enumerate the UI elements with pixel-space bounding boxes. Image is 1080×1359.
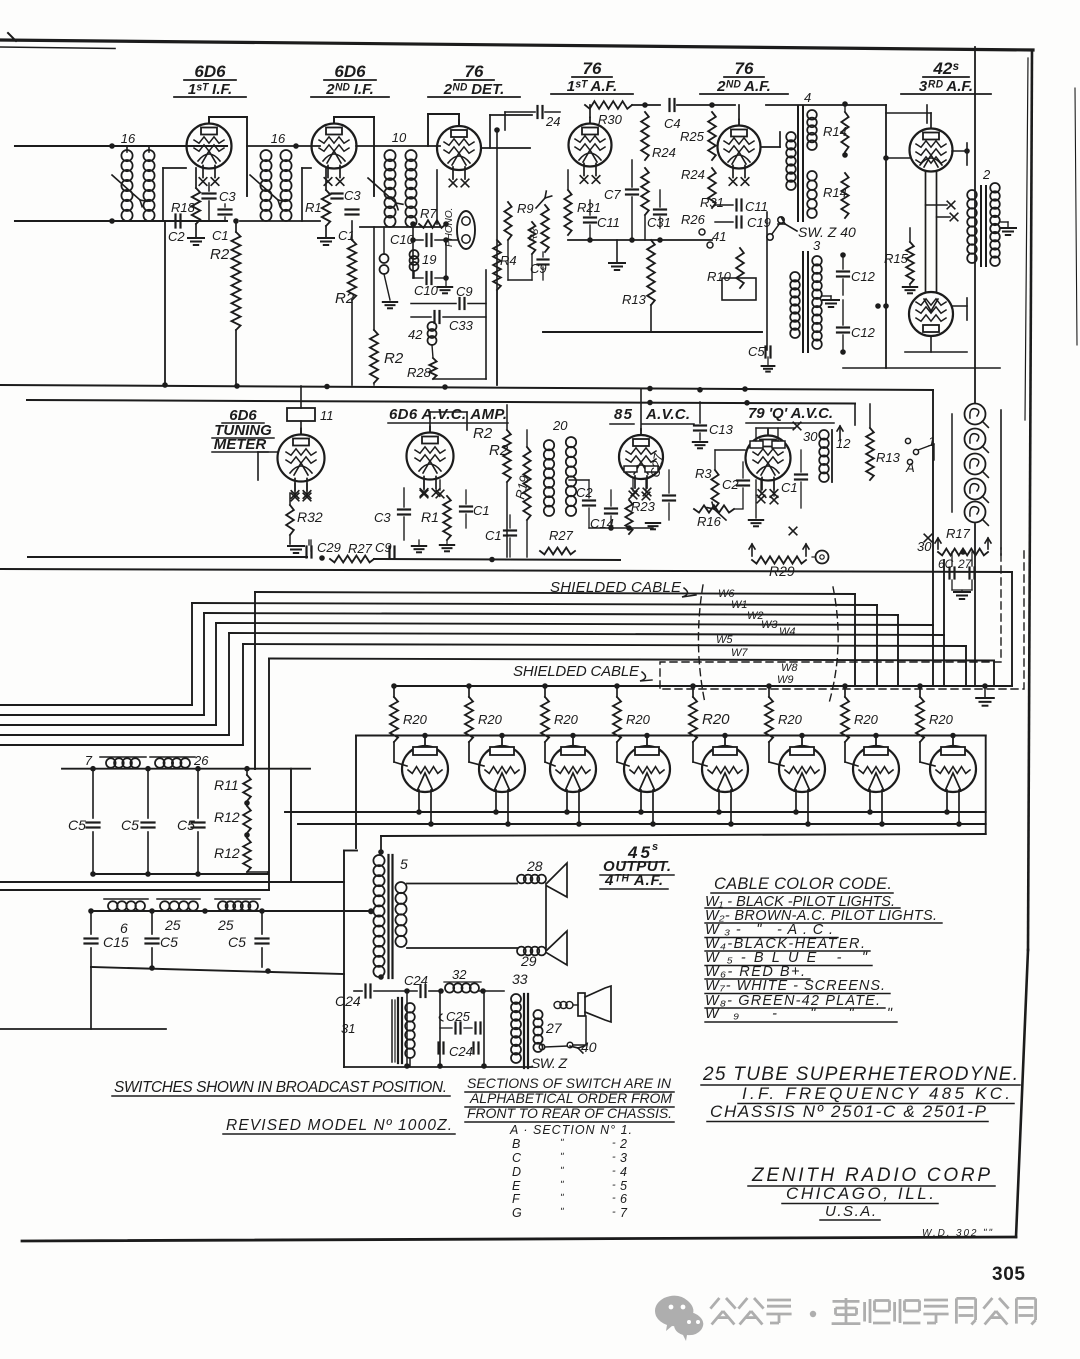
- svg-text:4: 4: [804, 90, 811, 105]
- svg-text:R12: R12: [214, 809, 240, 825]
- svg-text:R31: R31: [700, 195, 724, 210]
- svg-text:R30: R30: [598, 112, 623, 127]
- svg-text:C13: C13: [709, 422, 734, 437]
- svg-text:R11: R11: [214, 777, 239, 793]
- svg-text:16: 16: [271, 131, 286, 146]
- svg-text:C4: C4: [664, 116, 681, 131]
- svg-text:R23: R23: [631, 499, 656, 514]
- svg-text:R3: R3: [695, 466, 712, 481]
- svg-text:R9: R9: [517, 201, 534, 216]
- svg-text:29: 29: [520, 953, 537, 969]
- svg-text:C3: C3: [374, 510, 391, 525]
- svg-text:-: -: [612, 1206, 616, 1218]
- svg-text:R28: R28: [407, 365, 432, 380]
- svg-text:2: 2: [982, 167, 991, 182]
- svg-text:W₇- WHITE - SCREENS.: W₇- WHITE - SCREENS.: [705, 978, 885, 994]
- svg-text:R7: R7: [420, 206, 437, 221]
- svg-text:C7: C7: [604, 187, 621, 202]
- svg-text:G: G: [512, 1206, 522, 1220]
- svg-text:R27: R27: [348, 541, 373, 556]
- svg-text:C5: C5: [160, 934, 178, 950]
- svg-text:W4: W4: [779, 626, 796, 638]
- svg-text:4: 4: [620, 1165, 627, 1179]
- svg-text:C12: C12: [851, 269, 876, 284]
- svg-text:C33: C33: [449, 318, 474, 333]
- svg-text:5: 5: [400, 856, 408, 872]
- svg-text:D: D: [512, 1165, 521, 1179]
- svg-text:R13: R13: [876, 450, 901, 465]
- svg-text:30: 30: [803, 429, 818, 444]
- svg-text:R20: R20: [403, 712, 428, 727]
- svg-text:R2: R2: [384, 350, 404, 367]
- svg-text:6C: 6C: [938, 557, 954, 571]
- svg-text:3: 3: [813, 238, 821, 253]
- svg-text:ʺ: ʺ: [560, 1152, 564, 1163]
- svg-text:20: 20: [552, 418, 568, 433]
- svg-text:ʺ: ʺ: [560, 1166, 564, 1177]
- svg-text:12: 12: [836, 436, 851, 451]
- svg-text:CABLE COLOR CODE.: CABLE COLOR CODE.: [714, 875, 892, 893]
- svg-text:W5: W5: [716, 634, 733, 646]
- svg-text:7: 7: [85, 753, 93, 768]
- svg-text:SWITCHES SHOWN IN BROADCAST PO: SWITCHES SHOWN IN BROADCAST POSITION.: [114, 1079, 447, 1096]
- svg-text:ʺ: ʺ: [560, 1207, 564, 1218]
- svg-text:C10: C10: [414, 283, 439, 298]
- svg-text:3: 3: [620, 1151, 627, 1165]
- svg-text:s: s: [652, 841, 658, 853]
- svg-text:C12: C12: [851, 325, 876, 340]
- svg-text:R20: R20: [554, 712, 579, 727]
- svg-text:R10: R10: [707, 269, 732, 284]
- svg-text:R8: R8: [527, 227, 541, 244]
- svg-text:ʺ: ʺ: [560, 1138, 564, 1149]
- svg-text:SECTIONS OF SWITCH ARE IN: SECTIONS OF SWITCH ARE IN: [467, 1075, 672, 1091]
- svg-text:R27: R27: [549, 528, 574, 543]
- svg-text:79 'Q' A.V.C.: 79 'Q' A.V.C.: [748, 405, 833, 422]
- svg-text:R20: R20: [478, 712, 503, 727]
- svg-text:A.V.C.: A.V.C.: [645, 406, 690, 423]
- svg-text:2ᴺᴰ I.F.: 2ᴺᴰ I.F.: [325, 81, 374, 98]
- svg-text:C5: C5: [748, 344, 765, 359]
- svg-text:2ᴺᴰ DET.: 2ᴺᴰ DET.: [443, 81, 505, 98]
- svg-text:24: 24: [545, 114, 560, 129]
- svg-text:U.S.A.: U.S.A.: [825, 1203, 876, 1220]
- svg-text:R24: R24: [681, 167, 705, 182]
- svg-text:A · SECTION N° 1.: A · SECTION N° 1.: [509, 1123, 632, 1137]
- svg-text:ALPHABETICAL ORDER FROM: ALPHABETICAL ORDER FROM: [469, 1090, 672, 1106]
- svg-text:R24: R24: [652, 145, 676, 160]
- svg-text:-: -: [612, 1179, 616, 1191]
- svg-text:C24: C24: [404, 973, 428, 988]
- svg-text:C3: C3: [219, 189, 236, 204]
- svg-text:26: 26: [193, 753, 209, 768]
- svg-text:R18: R18: [171, 200, 196, 215]
- svg-text:SHIELDED CABLE: SHIELDED CABLE: [513, 663, 640, 680]
- svg-text:B: B: [512, 1137, 520, 1151]
- svg-text:C31: C31: [647, 215, 671, 230]
- svg-text:6D6 A.V.C. AMP.: 6D6 A.V.C. AMP.: [389, 406, 507, 423]
- svg-text:R20: R20: [702, 711, 730, 728]
- svg-text:-: -: [612, 1137, 616, 1149]
- svg-text:-: -: [612, 1165, 616, 1177]
- svg-text:6D6: 6D6: [334, 62, 366, 81]
- svg-text:C25: C25: [446, 1009, 471, 1024]
- svg-text:C1: C1: [212, 228, 229, 243]
- svg-text:C9: C9: [530, 261, 547, 276]
- svg-text:2: 2: [619, 1137, 627, 1151]
- svg-text:C24: C24: [335, 993, 361, 1009]
- svg-text:5: 5: [620, 1179, 627, 1193]
- svg-text:6: 6: [620, 1192, 627, 1206]
- svg-text:FRONT TO REAR OF CHASSIS.: FRONT TO REAR OF CHASSIS.: [467, 1105, 672, 1121]
- svg-text:W1: W1: [731, 599, 748, 611]
- svg-text:25: 25: [164, 917, 181, 933]
- svg-text:SHIELDED CABLE: SHIELDED CABLE: [550, 579, 682, 596]
- svg-text:R20: R20: [778, 712, 803, 727]
- svg-text:C11: C11: [597, 215, 620, 230]
- svg-text:19: 19: [422, 252, 436, 267]
- svg-text:31: 31: [341, 1021, 355, 1036]
- svg-text:27: 27: [957, 557, 973, 571]
- svg-text:C3: C3: [344, 188, 361, 203]
- svg-text:25: 25: [217, 917, 234, 933]
- svg-text:SW. Z: SW. Z: [531, 1055, 567, 1071]
- svg-text:C5: C5: [121, 817, 139, 833]
- svg-text:42: 42: [408, 327, 423, 342]
- svg-text:C2: C2: [168, 229, 185, 244]
- svg-text:32: 32: [452, 967, 467, 982]
- svg-text:C2: C2: [576, 485, 593, 500]
- svg-text:ʺ: ʺ: [560, 1193, 564, 1204]
- svg-text:R2: R2: [473, 425, 493, 442]
- svg-text:W7: W7: [731, 647, 748, 659]
- svg-text:30: 30: [917, 539, 932, 554]
- svg-text:W9: W9: [777, 674, 794, 686]
- svg-text:METER: METER: [214, 436, 267, 453]
- svg-text:W3: W3: [761, 619, 778, 631]
- svg-text:E: E: [512, 1179, 521, 1193]
- svg-text:C11: C11: [745, 199, 768, 214]
- svg-text:R17: R17: [946, 526, 971, 541]
- svg-text:C27: C27: [647, 452, 666, 479]
- svg-text:R32: R32: [297, 509, 323, 525]
- svg-text:CHICAGO, ILL.: CHICAGO, ILL.: [786, 1184, 934, 1203]
- svg-text:I.F. FREQUENCY 485 KC.: I.F. FREQUENCY 485 KC.: [742, 1084, 1010, 1103]
- svg-text:F: F: [512, 1192, 521, 1206]
- svg-text:10: 10: [392, 130, 407, 145]
- svg-text:C5: C5: [177, 817, 195, 833]
- svg-text:R12: R12: [214, 845, 240, 861]
- svg-text:-: -: [612, 1151, 616, 1163]
- svg-text:C24: C24: [449, 1044, 473, 1059]
- svg-text:C1: C1: [473, 503, 490, 518]
- svg-text:R13: R13: [622, 292, 647, 307]
- svg-text:R2: R2: [210, 246, 230, 263]
- svg-text:3ᴿᴰ A.F.: 3ᴿᴰ A.F.: [919, 78, 973, 95]
- svg-text:27: 27: [545, 1020, 563, 1036]
- svg-text:REVISED MODEL Nº 1000Z.: REVISED MODEL Nº 1000Z.: [226, 1117, 452, 1134]
- svg-text:R21: R21: [577, 200, 601, 215]
- svg-text:1ˢᵀ I.F.: 1ˢᵀ I.F.: [188, 81, 232, 98]
- svg-text:7: 7: [620, 1206, 628, 1220]
- svg-text:C9: C9: [456, 284, 473, 299]
- svg-text:C15: C15: [103, 934, 129, 950]
- svg-text:ʺ: ʺ: [560, 1180, 564, 1191]
- svg-text:CHASSIS Nº 2501-C & 2501-P: CHASSIS Nº 2501-C & 2501-P: [710, 1102, 987, 1121]
- svg-text:25 TUBE SUPERHETERODYNE.: 25 TUBE SUPERHETERODYNE.: [702, 1064, 1018, 1085]
- svg-text:33: 33: [512, 971, 528, 987]
- svg-text:C29: C29: [317, 540, 341, 555]
- svg-text:C5: C5: [228, 934, 246, 950]
- svg-text:28: 28: [526, 858, 543, 874]
- svg-text:4ᵀᴴ A.F.: 4ᵀᴴ A.F.: [604, 872, 663, 889]
- svg-text:R16: R16: [697, 514, 722, 529]
- svg-text:R26: R26: [681, 212, 706, 227]
- svg-text:42ˢ: 42ˢ: [932, 59, 959, 78]
- svg-text:6D6: 6D6: [194, 62, 226, 81]
- svg-text:R1: R1: [305, 200, 322, 215]
- svg-text:R20: R20: [854, 712, 879, 727]
- svg-text:-: -: [612, 1192, 616, 1204]
- svg-text:W8: W8: [781, 662, 798, 674]
- svg-text:C1: C1: [781, 480, 798, 495]
- svg-text:ZENITH RADIO CORP: ZENITH RADIO CORP: [751, 1165, 990, 1186]
- svg-text:76: 76: [465, 62, 484, 81]
- svg-text:R25: R25: [680, 129, 705, 144]
- svg-text:2ᴺᴰ A.F.: 2ᴺᴰ A.F.: [716, 78, 771, 95]
- svg-text:R2: R2: [489, 442, 509, 459]
- svg-text:R4: R4: [500, 253, 517, 268]
- svg-text:C2: C2: [722, 477, 739, 492]
- svg-text:C1: C1: [485, 528, 502, 543]
- svg-text:A: A: [905, 460, 915, 475]
- svg-text:76: 76: [583, 59, 602, 78]
- svg-text:R20: R20: [626, 712, 651, 727]
- svg-text:76: 76: [735, 59, 754, 78]
- svg-text:R20: R20: [929, 712, 954, 727]
- svg-text:1ˢᵀ A.F.: 1ˢᵀ A.F.: [567, 78, 617, 95]
- svg-text:41: 41: [712, 229, 726, 244]
- svg-text:C5: C5: [68, 817, 86, 833]
- svg-text:85: 85: [614, 406, 633, 423]
- svg-text:SW. Z 40: SW. Z 40: [798, 224, 856, 240]
- svg-text:R1: R1: [421, 509, 439, 525]
- svg-text:C: C: [512, 1151, 522, 1165]
- svg-text:16: 16: [121, 131, 136, 146]
- svg-text:11: 11: [320, 408, 334, 423]
- svg-text:305: 305: [992, 1264, 1025, 1285]
